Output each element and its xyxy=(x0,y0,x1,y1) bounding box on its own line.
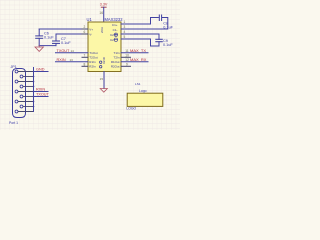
capacitor C8 xyxy=(159,15,161,21)
wire bus vertical xyxy=(33,68,35,112)
svg-text:V+: V+ xyxy=(89,27,93,31)
svg-text:5: 5 xyxy=(124,35,126,39)
ground GND2 xyxy=(100,89,107,93)
pin V- stub xyxy=(82,33,88,35)
power bar symbol xyxy=(101,7,106,22)
svg-text:GND: GND xyxy=(102,56,106,64)
svg-text:Port 1: Port 1 xyxy=(9,121,18,125)
svg-text:14: 14 xyxy=(71,49,75,53)
wire C9 drop xyxy=(158,34,160,39)
wire V- net (pin6 to C7 top) xyxy=(56,33,88,35)
svg-text:C1-: C1- xyxy=(113,28,118,32)
capacitor C7 xyxy=(53,41,60,43)
wire C7 bottom to rail xyxy=(55,44,57,46)
DB9 pin circles xyxy=(15,70,23,113)
ground GND1 xyxy=(35,46,43,52)
pin R2Out stub xyxy=(121,65,131,67)
svg-text:T2Out: T2Out xyxy=(89,56,98,60)
pin V+ stub xyxy=(82,28,88,30)
sheet background xyxy=(0,0,180,130)
svg-text:7: 7 xyxy=(84,54,86,58)
wire C6 bottom to rail xyxy=(38,38,40,45)
svg-text:T1In: T1In xyxy=(113,51,119,55)
svg-text:C2: C2 xyxy=(110,38,114,42)
pin R1Out wire MAX_RX xyxy=(121,61,148,63)
svg-text:0.1uF: 0.1uF xyxy=(44,36,54,40)
svg-text:V-: V- xyxy=(89,32,92,36)
wire RXIN net xyxy=(34,91,49,93)
pin GND stub bottom xyxy=(103,72,105,89)
svg-text:10: 10 xyxy=(125,54,129,58)
junction dots xyxy=(33,76,35,108)
svg-text:R1Out: R1Out xyxy=(111,60,120,64)
svg-text:4: 4 xyxy=(124,30,126,34)
svg-text:TXOUT: TXOUT xyxy=(36,93,50,97)
inversion bubbles R1 R2 xyxy=(100,61,102,68)
pin R2In stub xyxy=(82,65,88,67)
capacitor C6 xyxy=(36,36,43,38)
wire C9 return xyxy=(121,39,159,46)
svg-text:T1Out: T1Out xyxy=(89,51,98,55)
Logo part body xyxy=(127,93,163,106)
wire C7 vertical top xyxy=(55,34,57,41)
svg-text:15: 15 xyxy=(100,77,104,81)
svg-text:T2In: T2In xyxy=(113,56,119,60)
svg-text:C1+: C1+ xyxy=(112,23,118,27)
wire C6 vertical top xyxy=(38,29,40,36)
wire C8 riser xyxy=(151,18,159,25)
svg-text:16: 16 xyxy=(99,11,103,15)
DB9 pin lines xyxy=(18,72,33,112)
wire ground rail xyxy=(39,45,56,47)
svg-text:LS1: LS1 xyxy=(135,82,141,86)
svg-text:2OA: 2OA xyxy=(100,27,104,33)
svg-text:LOGO: LOGO xyxy=(126,107,136,111)
svg-text:RXIN: RXIN xyxy=(36,88,45,92)
wire V+ net (pin2 to C6 top) xyxy=(39,28,88,30)
svg-text:U1: U1 xyxy=(87,17,93,22)
svg-text:1: 1 xyxy=(124,20,126,24)
pin T2In stub xyxy=(121,56,131,58)
pin C2+ wire xyxy=(121,33,159,35)
svg-text:Logo: Logo xyxy=(139,89,147,93)
svg-text:C2: C2 xyxy=(110,33,114,37)
svg-text:RXIN: RXIN xyxy=(57,58,66,62)
chip inner pin names xyxy=(89,23,120,69)
svg-text:0.1uF: 0.1uF xyxy=(61,41,71,45)
svg-text:MAX_TX: MAX_TX xyxy=(130,48,146,53)
DB9 connector body xyxy=(13,69,26,118)
wire C8 return xyxy=(121,18,168,30)
svg-text:6: 6 xyxy=(84,30,86,34)
IC U1 body xyxy=(88,22,121,72)
svg-text:MAX_RX: MAX_RX xyxy=(130,57,147,62)
svg-text:11: 11 xyxy=(125,49,129,53)
pin R1In wire RXIN xyxy=(56,61,89,63)
svg-text:8: 8 xyxy=(84,63,86,67)
svg-text:2: 2 xyxy=(84,25,86,29)
wire TXOUT net xyxy=(34,96,49,98)
svg-text:13: 13 xyxy=(70,58,74,62)
svg-text:0.1uF: 0.1uF xyxy=(163,43,173,47)
svg-text:R2Out: R2Out xyxy=(111,65,120,69)
svg-text:3.3V: 3.3V xyxy=(100,2,108,6)
svg-text:MAX3232: MAX3232 xyxy=(105,17,124,22)
svg-text:3: 3 xyxy=(124,25,126,29)
glyph circle-plus C2+ xyxy=(114,33,117,41)
pin T1Out wire TXOUT xyxy=(56,52,89,54)
wire GND net xyxy=(34,71,49,73)
svg-text:R1In: R1In xyxy=(89,60,96,64)
svg-text:R2In: R2In xyxy=(89,65,96,69)
pin T1In wire MAX_TX xyxy=(121,52,148,54)
svg-text:TXOUT: TXOUT xyxy=(57,49,71,53)
svg-text:9: 9 xyxy=(126,63,128,67)
pin C1+ wire xyxy=(121,23,151,25)
svg-text:12: 12 xyxy=(125,58,129,62)
capacitor C9 xyxy=(156,39,163,41)
svg-text:GND: GND xyxy=(36,68,45,72)
pin T2Out stub xyxy=(82,56,88,58)
